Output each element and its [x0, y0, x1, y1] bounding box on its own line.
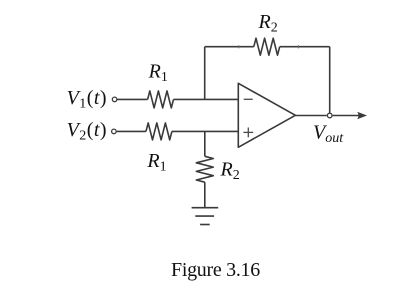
wire feedback top right segment [280, 46, 330, 48]
junction tick on feedback wire right [297, 45, 299, 48]
output node terminal [327, 113, 332, 118]
wire junction to R2 vertical [204, 131, 206, 156]
wire R1 to op-amp minus input [174, 98, 239, 100]
wire feedback top left segment [205, 46, 254, 48]
svg-text:Vout: Vout [313, 122, 344, 147]
op-amp U1 [238, 83, 295, 147]
wire R2 to ground [204, 182, 206, 208]
svg-text:R2: R2 [220, 158, 240, 183]
wire feedback right vertical [329, 47, 331, 113]
terminal V2 [112, 129, 117, 134]
ground [192, 208, 219, 225]
wire V2 to R1 [117, 130, 146, 132]
wire output node to arrow [333, 115, 361, 117]
terminal V1 [112, 97, 117, 102]
op-amp minus input marker [244, 98, 253, 100]
op-amp plus input marker [243, 128, 253, 138]
wire V1 to R1 [117, 98, 147, 100]
resistor R1 top [148, 91, 174, 108]
wire R1 to op-amp plus input [172, 130, 238, 132]
svg-text:Figure 3.16: Figure 3.16 [171, 259, 260, 281]
resistor R2 to ground [196, 156, 213, 182]
resistor R2 feedback [254, 38, 280, 55]
svg-text:R1: R1 [146, 150, 166, 175]
resistor R1 bottom [146, 123, 172, 140]
arrowhead Vout [357, 112, 367, 119]
wire feedback left vertical [204, 47, 206, 100]
svg-text:V1(t): V1(t) [67, 87, 107, 112]
wire op-amp output to node [295, 115, 326, 117]
junction tick on feedback wire left [238, 45, 240, 48]
svg-text:R2: R2 [258, 11, 278, 36]
svg-text:V2(t): V2(t) [67, 119, 107, 144]
svg-text:R1: R1 [148, 61, 168, 86]
